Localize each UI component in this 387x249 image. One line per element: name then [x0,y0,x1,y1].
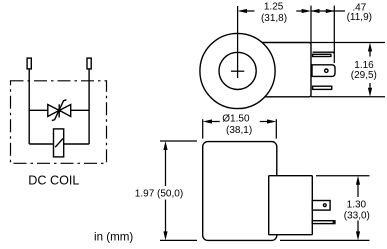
dimension extension line at connector face [310,6,312,43]
svg-text:Ø1.50: Ø1.50 [222,114,250,125]
enclosure dash-dot box [11,81,107,164]
dimension 1.97 bottom extension line [160,239,197,241]
coil outer circle [200,33,275,108]
dimension 1.30 bottom extension line [280,239,370,241]
spade terminal (front view) [312,201,330,211]
dimension 1.16 bottom extension line [311,96,385,98]
coil diagonal stroke [55,139,63,148]
dimension 1.30 top arrow [356,176,360,185]
centerline vertical [237,6,239,78]
junction dot [57,109,61,113]
spade terminal bottom (top view) [313,86,332,89]
coil inner circle [219,52,256,89]
svg-text:(33,0): (33,0) [344,210,370,221]
wire left vertical [28,69,30,144]
spade terminal top (top view) [313,52,334,54]
svg-text:in (mm): in (mm) [94,231,133,244]
TVS suppressor left triangle [48,105,59,117]
center cross horizontal arm [231,70,244,72]
dimension Ø1.50 right arrow [267,119,276,123]
wire bottom left [29,143,53,145]
terminal pin 1 [27,58,31,69]
svg-text:(31,8): (31,8) [261,13,287,24]
svg-text:1.97 (50,0): 1.97 (50,0) [135,189,183,200]
ground tab hole [325,69,328,72]
coil element rectangle [54,129,64,157]
terminal pin 2 [87,58,91,69]
wire right vertical [88,69,90,144]
dimension 1.97 top extension line [160,140,197,142]
dimension 1.30 top extension line [316,175,370,177]
spade hole [323,204,326,207]
svg-text:DC COIL: DC COIL [28,174,79,188]
coil body front view [203,142,277,241]
svg-text:1.25: 1.25 [264,1,284,12]
ground tab (top view) [312,65,335,77]
dimension 1.16 top extension line [311,42,385,44]
leader line .47 [334,10,345,12]
dimension Ø1.50 left extension line [202,119,204,138]
svg-text:(29,5): (29,5) [351,70,377,81]
svg-text:(38,1): (38,1) [226,125,252,136]
svg-text:1.30: 1.30 [347,200,367,211]
dimension 1.16 top arrow [368,43,372,52]
dimension line 1.25 right arrow [302,9,311,13]
wire suppressor branch left [29,109,48,111]
dimension 1.30 bottom arrow [356,231,360,240]
coil body top-view rectangle [240,43,311,97]
lower blade tip [333,221,335,224]
dimension Ø1.50 left arrow [203,119,212,123]
wire bottom right [64,143,89,145]
dimension extension line at tab end [333,6,335,63]
TVS diagonal stroke [52,100,67,121]
wire suppressor branch right [71,109,89,111]
TVS center bar [58,104,60,117]
TVS suppressor right triangle [59,105,70,117]
svg-text:(11,9): (11,9) [347,12,372,23]
dimension 1.97 top arrow [163,141,167,150]
dimension line .47 [311,10,334,12]
connector block front view [269,176,313,235]
dimension 1.16 bottom arrow [368,88,372,97]
dimension 1.97 bottom arrow [163,231,167,240]
lower blade (front view) [312,221,335,224]
dimension Ø1.50 right extension line [275,119,277,138]
dimension line 1.25 left arrow [238,9,247,13]
